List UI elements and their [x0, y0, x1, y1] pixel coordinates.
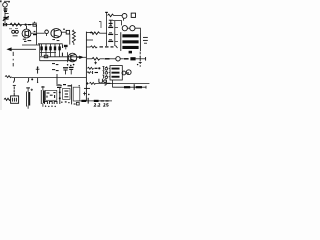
wire antenna vertical — [4, 7, 6, 24]
end tick — [145, 86, 147, 89]
label bottom marks — [94, 104, 108, 107]
resistor R3 — [90, 32, 100, 35]
gang end mark — [62, 44, 64, 48]
wire to jack — [114, 15, 122, 17]
jack circle — [122, 14, 127, 19]
marks below B2 — [45, 101, 57, 104]
dots below Q3 — [67, 64, 75, 66]
lower left wire — [5, 76, 11, 78]
vertical line right of B3 — [71, 84, 73, 104]
vertical junction — [56, 74, 58, 84]
resistor R2 vertical — [72, 30, 75, 44]
battery dash 2 — [136, 86, 142, 88]
electrolytic C11 — [42, 86, 44, 90]
bus wire 3 — [40, 60, 77, 62]
speaker terminal 1 — [122, 71, 126, 75]
branch resistor Rb — [108, 33, 113, 35]
below transformer mark — [129, 51, 132, 54]
speaker terminal 2 — [126, 70, 131, 75]
plus mark below — [139, 61, 142, 63]
PSU box B3 — [63, 88, 70, 99]
base lead Q1 — [26, 26, 28, 29]
wire and cap dash — [100, 58, 104, 60]
bus mark tick — [84, 87, 90, 89]
bottom right rail — [112, 86, 146, 88]
wire Q1 to Q2 — [31, 32, 45, 34]
cross vertical — [87, 98, 89, 104]
branch resistor Rc — [108, 40, 113, 42]
end tick — [145, 57, 147, 61]
transformer T1 left leg — [120, 32, 122, 51]
junction node — [31, 78, 33, 80]
main vertical bus — [85, 32, 87, 101]
wire right — [120, 58, 124, 60]
coil L1 — [4, 9, 8, 12]
battery dash 1 — [124, 86, 130, 88]
wire down from C5 — [69, 34, 71, 45]
dash d — [106, 100, 109, 102]
output transformer box — [110, 66, 122, 80]
electrolytic C10 — [27, 87, 29, 92]
drop tick — [37, 78, 39, 82]
arrow to bus — [77, 56, 86, 58]
wire vertical with taps — [59, 87, 61, 104]
wire Q5 to transformer — [135, 28, 140, 33]
thick dash b — [94, 100, 99, 102]
dash — [107, 82, 110, 84]
wire chain with dashes — [91, 46, 118, 48]
core marks — [143, 37, 148, 43]
speaker lead — [122, 72, 123, 74]
node tick — [5, 13, 9, 15]
lamp circle — [116, 57, 120, 61]
scan edge left — [0, 2, 2, 110]
resistor R4 top — [105, 11, 108, 13]
capacitor C5 — [66, 30, 69, 34]
cap pair marks — [63, 67, 74, 74]
branch resistor Ra — [108, 26, 113, 28]
mechanical dashed link — [139, 52, 141, 67]
thick dash a — [81, 100, 86, 102]
row2 label — [103, 71, 108, 75]
row2 chain capacitor — [87, 72, 91, 74]
background — [0, 0, 150, 112]
corner wire faint — [99, 22, 101, 28]
wire to cross — [136, 58, 146, 60]
coil L2 — [3, 23, 6, 27]
resistor R1 — [10, 23, 22, 26]
gang section 4 — [54, 44, 56, 57]
winding bar 1 — [122, 34, 138, 37]
marks above B2 — [56, 85, 71, 88]
wire R3 to bus B — [100, 32, 107, 34]
driver transistor Q5 — [130, 26, 135, 31]
cross mark — [139, 56, 141, 61]
label Ug — [99, 79, 106, 85]
transistor Q3 — [68, 53, 77, 62]
gang section 2 — [45, 44, 47, 56]
PSU box B1 — [11, 96, 19, 103]
winding bar b — [112, 72, 120, 74]
gang section 5 — [59, 44, 61, 57]
winding bar a — [112, 68, 120, 70]
bus wire 1 — [40, 52, 56, 54]
winding bar 2 — [122, 40, 138, 43]
wire vertical right of mixer — [36, 25, 38, 45]
antenna top wire — [4, 1, 10, 3]
gang left rail — [39, 44, 41, 61]
detector chain resistor R5 — [92, 58, 100, 61]
solder specks — [60, 85, 75, 105]
marks below gang — [52, 64, 59, 71]
stub ticks right — [115, 27, 118, 41]
wire between — [127, 27, 129, 29]
marks below Q2 — [52, 40, 59, 41]
capacitor C4 — [33, 34, 37, 36]
transformer T1 right leg — [139, 33, 141, 51]
bus plus mark — [83, 92, 89, 96]
top right bus B — [106, 13, 108, 46]
capacitor C3 — [33, 23, 36, 26]
wire top chain — [3, 24, 37, 26]
arrowhead — [6, 47, 11, 51]
wire mid horizontal — [22, 44, 40, 46]
trimmer box — [44, 55, 48, 58]
speck — [137, 64, 138, 65]
PSU input resistor — [4, 98, 10, 100]
wire Ug chain — [86, 82, 88, 84]
gang section 1 — [41, 44, 43, 56]
cap dash — [124, 58, 129, 60]
junction ticks — [61, 53, 63, 57]
row1 chain resistor — [88, 67, 94, 69]
gang section 3 — [50, 44, 52, 57]
wire right long — [96, 82, 150, 84]
transistor Q2 — [51, 29, 62, 38]
trimmer pair — [12, 30, 15, 33]
PSU box B2 — [45, 90, 56, 100]
winding bar 3 — [122, 46, 138, 49]
plus mark — [94, 61, 97, 64]
dark blob component — [130, 57, 135, 60]
dash c — [101, 100, 104, 102]
bus stub 1 — [86, 31, 93, 33]
bus wire 2 — [40, 56, 82, 58]
node dot — [63, 28, 65, 30]
B2 inner marks — [47, 93, 56, 98]
component flag — [109, 20, 113, 26]
driver transistor Q4 — [122, 26, 127, 31]
transistor Q1 — [22, 29, 31, 38]
Q3 left rail — [67, 52, 69, 62]
PSU box B4 — [73, 87, 80, 101]
junction node A — [25, 24, 27, 26]
row1 label — [103, 66, 108, 70]
corner wire to driver — [113, 21, 122, 26]
winding bar c — [112, 76, 120, 78]
bus stub 2 — [86, 39, 93, 41]
wire AGC arrow — [9, 48, 36, 50]
bus stub 3 — [86, 46, 90, 48]
hook 2 — [27, 78, 28, 83]
row3 label — [103, 75, 108, 79]
dashed link vertical — [12, 52, 14, 67]
side capacitor mark — [64, 45, 68, 47]
capacitor C1 circle — [3, 3, 8, 8]
bus C vertical — [114, 21, 116, 46]
bottom rail chain — [76, 100, 112, 102]
capacitor C3a — [28, 24, 31, 26]
variable capacitor C2 — [3, 16, 9, 21]
wire Q2 collector — [62, 31, 67, 33]
dashes above B1 — [13, 85, 16, 95]
tuning gang top bus — [38, 43, 63, 45]
corner speck — [0, 0, 2, 2]
T mark — [36, 66, 40, 73]
battery cross — [133, 84, 135, 90]
wire box to bottom rail — [111, 80, 113, 87]
emitter circle Q2 base — [45, 30, 49, 34]
marks below Q1 — [23, 39, 31, 41]
label dashes — [9, 28, 18, 30]
jack plug square — [131, 13, 135, 17]
hook 1 — [13, 78, 14, 83]
